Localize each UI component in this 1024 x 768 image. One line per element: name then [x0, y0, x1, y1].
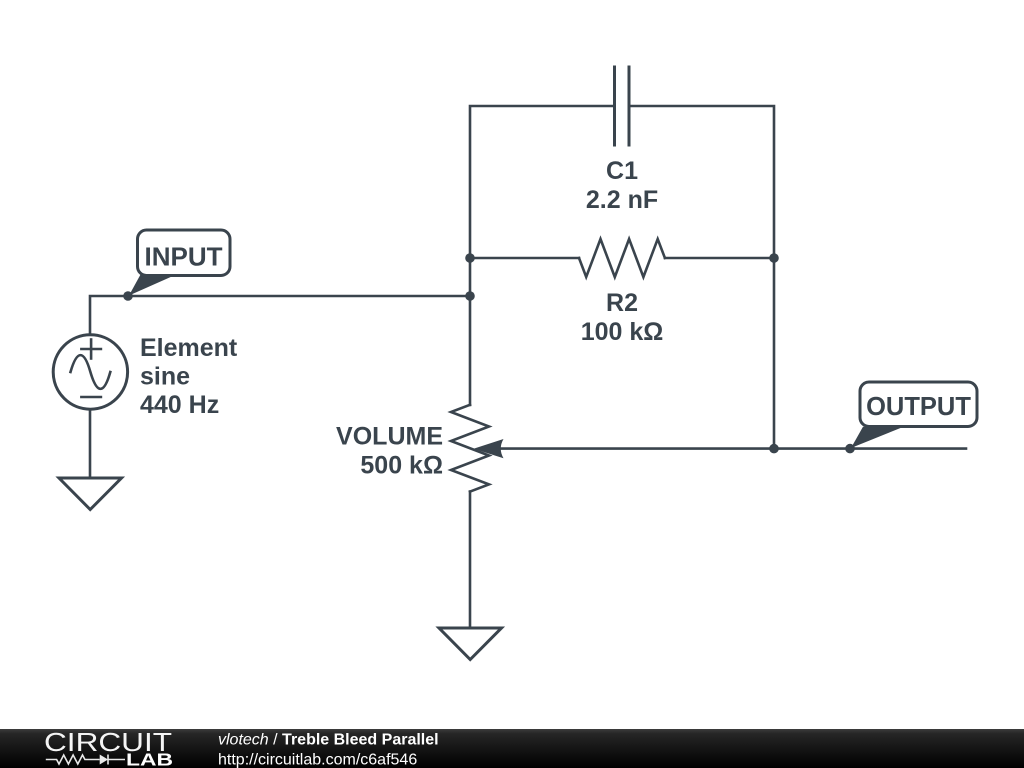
svg-text:vlotech / Treble Bleed Paralle: vlotech / Treble Bleed Parallel: [218, 732, 439, 749]
node INPUT flag attach point: [123, 291, 133, 301]
wire top-right horizontal from C1 right plate to right corner: [629, 106, 774, 258]
wire output to the right edge: [774, 447, 966, 450]
svg-text:500 kΩ: 500 kΩ: [360, 452, 443, 480]
node OUTPUT flag attach point: [845, 444, 855, 454]
wire wiper to right vertical: [500, 447, 774, 450]
voltage source plus sign: [81, 340, 101, 359]
svg-text:2.2 nF: 2.2 nF: [586, 186, 658, 214]
wire source bottom to ground: [89, 410, 92, 479]
svg-text:http://circuitlab.com/c6af546: http://circuitlab.com/c6af546: [218, 752, 417, 768]
node input wire junction: [465, 291, 475, 301]
svg-text:C1: C1: [606, 157, 638, 185]
wire top-left horizontal from left corner to C1 left plate: [470, 106, 615, 258]
wire left vertical from R2 node down to potentiometer top: [469, 258, 472, 405]
OUTPUT flag box: [860, 382, 977, 427]
ground below potentiometer: [439, 628, 502, 660]
INPUT flag tail: [129, 274, 177, 295]
svg-text:LAB: LAB: [126, 750, 173, 768]
svg-text:INPUT: INPUT: [145, 242, 223, 272]
potentiometer VOLUME resistor body: [451, 405, 489, 492]
resistor R2: [579, 239, 665, 277]
potentiometer wiper arrow: [474, 439, 504, 458]
node wiper junction: [769, 444, 779, 454]
wire potentiometer bottom to ground: [469, 492, 472, 628]
wire R2 right lead: [665, 257, 774, 260]
svg-text:100 kΩ: 100 kΩ: [581, 318, 664, 346]
label source Element sine 440 Hz: [140, 334, 238, 419]
capacitor C1: [615, 67, 630, 145]
OUTPUT flag tail: [851, 427, 904, 448]
node junction C1/R2 right: [769, 253, 779, 263]
INPUT flag box: [138, 230, 231, 276]
wire input horizontal from source to left vertical: [90, 296, 470, 333]
voltage source V1 circle: [53, 335, 127, 409]
voltage source minus sign: [81, 396, 101, 399]
ground below source: [59, 478, 122, 510]
svg-text:R2: R2: [606, 289, 638, 317]
svg-text:440 Hz: 440 Hz: [140, 391, 219, 419]
svg-text:Element: Element: [140, 334, 238, 362]
node junction C1/R2 left: [465, 253, 475, 263]
footer logo resistor-diode symbol: [46, 755, 125, 765]
wire right vertical from R2 node down to wiper wire: [773, 258, 776, 449]
svg-text:OUTPUT: OUTPUT: [866, 393, 971, 421]
svg-text:sine: sine: [140, 363, 190, 391]
svg-text:VOLUME: VOLUME: [336, 423, 443, 451]
wire R2 left lead: [470, 257, 579, 260]
voltage source V1 sine symbol: [71, 355, 111, 389]
